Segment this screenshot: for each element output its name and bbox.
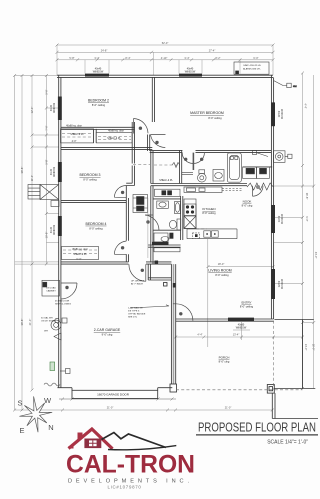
svg-text:8'-2": 8'-2" — [215, 56, 220, 60]
svg-text:52'-0": 52'-0" — [162, 41, 169, 45]
kitchen upper counter strip — [184, 187, 222, 192]
hall right wall upper — [148, 135, 150, 152]
living room dim extension — [207, 239, 209, 347]
svg-text:SIMP. 4200 PLUS: SIMP. 4200 PLUS — [243, 65, 261, 67]
label kitchen — [202, 207, 216, 215]
linen boxes hall — [155, 189, 181, 196]
electrical panel right wall — [274, 151, 286, 163]
svg-text:4'-4": 4'-4" — [197, 333, 202, 337]
water heater — [51, 320, 61, 330]
svg-text:W: W — [44, 396, 52, 405]
svg-text:SELF CLOSING: SELF CLOSING — [55, 304, 71, 306]
svg-text:N: N — [48, 423, 53, 432]
svg-text:8'-0" ceiling: 8'-0" ceiling — [215, 273, 229, 277]
svg-text:LIC#1079870: LIC#1079870 — [107, 485, 141, 490]
svg-text:1-HR WALL W/: 1-HR WALL W/ — [128, 307, 143, 310]
bedroom3 door — [114, 186, 126, 198]
bedroom4 closet shelf — [63, 249, 97, 251]
laundry bottom wall — [148, 245, 181, 247]
svg-text:9'-0": 9'-0" — [305, 216, 309, 221]
DN box below fireplace — [51, 201, 59, 207]
svg-text:WINDOW: WINDOW — [280, 279, 282, 290]
svg-text:WINDOW: WINDOW — [236, 327, 247, 330]
svg-text:40x68 sq. door: 40x68 sq. door — [108, 129, 124, 132]
svg-text:24'-8": 24'-8" — [101, 48, 108, 52]
svg-text:CAL-TRON: CAL-TRON — [66, 451, 195, 479]
window top wall bedroom2 — [85, 74, 109, 77]
dim tick left bed4 window — [46, 241, 58, 243]
bottom wall living/entry — [176, 319, 274, 321]
master closet right wall — [180, 150, 182, 183]
svg-text:40x40: 40x40 — [277, 111, 279, 118]
svg-text:16070 GARAGE DOOR: 16070 GARAGE DOOR — [97, 392, 130, 396]
porch dimension line — [175, 336, 303, 338]
svg-text:UP 15R RISE: UP 15R RISE — [131, 281, 145, 283]
svg-text:11'-4": 11'-4" — [30, 175, 34, 181]
dim tick bedroom3 top — [32, 146, 59, 148]
bedroom3/4 right wall — [126, 186, 128, 262]
fireplace hatch box left wall — [28, 185, 40, 200]
garage wall outlet — [173, 283, 176, 288]
wavy planter line — [247, 183, 273, 190]
svg-text:8'-0" ceiling: 8'-0" ceiling — [202, 211, 216, 215]
FAU closet — [133, 195, 148, 213]
svg-text:2-CAR GARAGE: 2-CAR GARAGE — [94, 328, 121, 332]
svg-text:3'-4": 3'-4" — [94, 56, 99, 60]
range burner dots — [186, 205, 194, 213]
svg-text:18'-0": 18'-0" — [218, 262, 225, 266]
door dot hall bath — [146, 220, 149, 223]
svg-text:MASTER BEDROOM: MASTER BEDROOM — [190, 111, 224, 115]
svg-text:WH: WH — [44, 331, 48, 333]
bedroom2/master wall — [152, 77, 154, 122]
right exterior wall — [271, 75, 273, 319]
window extension ticks from top dim to wall — [57, 45, 273, 75]
window left wall bedroom3 — [58, 162, 62, 182]
left dim top connector — [15, 75, 57, 77]
left dimension line 2 — [21, 76, 23, 411]
bedroom4 closet pole — [63, 253, 97, 255]
far right dimension line — [313, 75, 315, 389]
svg-text:10'-8": 10'-8" — [45, 232, 49, 239]
master bath sink — [213, 170, 224, 182]
svg-text:40x50: 40x50 — [277, 216, 279, 223]
svg-text:NOOK: NOOK — [243, 200, 252, 204]
closet pole dashed bedroom2 right — [98, 139, 131, 141]
hallbath/laundry left wall — [151, 186, 153, 263]
door dot bedroom4 — [121, 246, 124, 249]
vestibule shelf — [154, 248, 180, 252]
svg-text:WINDOW: WINDOW — [280, 214, 282, 225]
kitchen dashed upper cab — [196, 228, 207, 230]
hall bath door — [145, 215, 159, 231]
rotated window labels left wall — [51, 102, 282, 290]
gas meter top right — [274, 81, 287, 86]
bedroom2 door — [134, 119, 149, 134]
top dimension line 2 — [57, 51, 273, 53]
svg-text:SHELF & PL: SHELF & PL — [70, 133, 84, 136]
svg-text:PORCH: PORCH — [219, 356, 230, 360]
attic access hall — [133, 164, 150, 166]
svg-text:BEDROOM 4: BEDROOM 4 — [85, 222, 106, 226]
svg-text:SCALE 1/4"= 1'-0": SCALE 1/4"= 1'-0" — [267, 440, 308, 446]
fireplace hatch lines — [28, 188, 40, 195]
master vanity double — [243, 167, 257, 179]
door dot master bath right — [200, 158, 203, 161]
bedroom2 closet top wall — [61, 127, 135, 129]
svg-text:8'-0" clng: 8'-0" clng — [242, 203, 253, 207]
fireplace X box — [40, 185, 59, 200]
master vanity wall — [243, 166, 272, 168]
bedroom4 door — [114, 241, 126, 254]
left dimension line 1 — [14, 76, 16, 411]
logo house window — [89, 440, 97, 446]
master bath top wall — [150, 150, 272, 152]
svg-text:40x68 sq. door: 40x68 sq. door — [66, 124, 82, 127]
master bath toilet — [199, 170, 205, 174]
svg-text:BEDROOM 3: BEDROOM 3 — [79, 173, 100, 177]
label living room — [208, 269, 231, 278]
svg-text:8'-4": 8'-4" — [125, 56, 130, 60]
logo house body — [84, 439, 101, 449]
dim tick left bed4 top — [46, 213, 59, 215]
front door label underline — [233, 329, 250, 331]
left dimension line 4 — [45, 76, 47, 265]
svg-text:ALARM 2436 DTL: ALARM 2436 DTL — [243, 68, 262, 71]
svg-text:GM: GM — [293, 86, 297, 88]
top exterior wall — [57, 75, 273, 77]
dishwasher dashed — [193, 233, 200, 239]
master bath bottom wall — [151, 184, 247, 186]
kitchen counter left column — [184, 199, 196, 229]
svg-text:16'-0": 16'-0" — [312, 344, 316, 351]
svg-text:WINDOW: WINDOW — [93, 71, 104, 74]
window right wall living — [271, 269, 275, 299]
svg-text:AT 7" EACH: AT 7" EACH — [131, 283, 143, 286]
svg-text:44'-0": 44'-0" — [314, 252, 318, 259]
svg-text:KITCHEN: KITCHEN — [202, 207, 215, 211]
label bedroom2 — [88, 99, 109, 108]
svg-text:6'-0": 6'-0" — [76, 257, 81, 261]
svg-text:5'-8": 5'-8" — [45, 159, 49, 164]
kitchen/bath divider wall — [181, 196, 183, 240]
top dimension line 1 — [57, 44, 273, 46]
tub faucet squares — [230, 156, 233, 159]
hall bath vanity — [157, 201, 169, 208]
svg-text:27'-4": 27'-4" — [209, 48, 216, 52]
label master bedroom — [190, 111, 224, 120]
entry steps — [272, 393, 318, 418]
wavy electrical bottom left — [44, 383, 60, 386]
svg-text:4'-10": 4'-10" — [161, 56, 168, 60]
hall to garage door — [129, 264, 146, 281]
dim tick right 3b — [274, 242, 303, 244]
svg-text:50 GAL WH: 50 GAL WH — [41, 317, 53, 320]
svg-text:13'-4": 13'-4" — [233, 333, 240, 337]
bedroom4 closet box — [62, 247, 99, 260]
bedroom3 bottom wall — [61, 200, 126, 202]
door dot master bath left — [184, 158, 187, 161]
bedroom2 closet box right — [96, 132, 132, 143]
dim tick bedroom2 bottom — [32, 134, 59, 136]
svg-text:21'-0": 21'-0" — [225, 406, 232, 410]
svg-text:40x40: 40x40 — [51, 226, 53, 233]
svg-text:8'-0" ceiling: 8'-0" ceiling — [208, 116, 222, 120]
svg-text:E: E — [19, 426, 24, 435]
svg-text:5'-8": 5'-8" — [69, 56, 74, 60]
laundry washer/dryer — [154, 233, 168, 242]
svg-text:40x80: 40x80 — [277, 281, 279, 288]
left exterior wall — [59, 75, 61, 388]
gas meter symbols — [62, 318, 67, 323]
range burners — [184, 204, 196, 216]
svg-text:S: S — [17, 399, 22, 408]
dim tick right 2 — [274, 185, 314, 187]
svg-text:40x40: 40x40 — [51, 104, 53, 111]
door dot hall to garage — [141, 269, 144, 272]
closet divider — [94, 129, 97, 143]
right dimension line — [302, 73, 304, 389]
logo red roof — [69, 429, 113, 449]
hall bath shower — [175, 202, 181, 214]
svg-text:ON 18" STAND: ON 18" STAND — [41, 320, 56, 323]
svg-text:12'-0": 12'-0" — [30, 107, 34, 114]
front door dim extension — [241, 322, 243, 340]
svg-text:9'-0" clng: 9'-0" clng — [102, 333, 113, 337]
laundry door dark blob — [169, 233, 173, 239]
kitchen bottom counter — [187, 229, 237, 239]
door dot master bedroom — [155, 141, 158, 144]
svg-text:40x40: 40x40 — [51, 168, 53, 175]
note box top right — [234, 62, 269, 74]
label entry — [240, 301, 254, 309]
svg-text:6'-0": 6'-0" — [253, 56, 258, 60]
svg-text:36'-8": 36'-8" — [20, 319, 24, 326]
master bedroom door — [151, 135, 166, 148]
landing outlet blob — [155, 261, 159, 264]
garage door jambs — [57, 388, 172, 391]
dim tick right 4 — [274, 283, 303, 285]
window right wall nook upper — [271, 205, 275, 233]
window left wall bedroom2 — [58, 97, 62, 121]
garage right wall — [171, 264, 175, 384]
svg-text:LIVING ROOM: LIVING ROOM — [208, 269, 231, 273]
garage to living door — [173, 304, 193, 321]
label bedroom4 — [85, 222, 106, 231]
svg-text:WINDOW: WINDOW — [280, 109, 282, 120]
svg-text:8'-0" ceiling: 8'-0" ceiling — [240, 304, 254, 308]
garage side door — [61, 283, 77, 299]
svg-text:8'-0" ceiling: 8'-0" ceiling — [89, 226, 103, 230]
hall bath bottom wall — [153, 229, 181, 231]
svg-text:45 MIN DOOR: 45 MIN DOOR — [55, 301, 70, 303]
fridge box — [184, 216, 196, 229]
svg-text:PROPOSED FLOOR PLAN: PROPOSED FLOOR PLAN — [198, 421, 316, 435]
svg-text:8'-0" ceiling: 8'-0" ceiling — [92, 103, 106, 107]
bath dim extension — [147, 198, 149, 258]
hall bath top wall — [153, 198, 181, 200]
hall bath toilet — [177, 219, 181, 230]
closet pole dashed bedroom2 left — [62, 136, 93, 138]
window top wall master — [179, 74, 202, 77]
closet row bottom / bedroom3 top wall — [61, 147, 152, 149]
front door band — [228, 318, 254, 322]
master tub — [227, 153, 241, 182]
left dimension line 3 — [31, 76, 33, 391]
side door cabinet box — [42, 280, 60, 296]
bedroom234 bottom wall / hall top — [61, 262, 171, 264]
logo swoosh — [108, 445, 176, 451]
green box garage — [50, 362, 55, 371]
1hr wall leader — [130, 305, 169, 308]
title underline — [196, 434, 318, 436]
svg-text:BEDROOM 2: BEDROOM 2 — [88, 99, 109, 103]
master bath double doors — [182, 153, 204, 170]
door dot garage to living — [179, 312, 182, 315]
svg-text:CABINET: CABINET — [46, 290, 56, 293]
window right wall master — [271, 102, 275, 126]
garage stair landing walls — [148, 264, 171, 280]
logo black roofline — [102, 433, 167, 448]
svg-text:5'-0": 5'-0" — [45, 89, 49, 94]
toilet partition — [182, 172, 193, 174]
logo eave tick left — [69, 446, 74, 448]
svg-text:ENTRY: ENTRY — [241, 301, 251, 305]
master closet pole — [154, 164, 179, 166]
svg-text:21'-0": 21'-0" — [107, 406, 114, 410]
svg-text:GYP BD EA SIDE: GYP BD EA SIDE — [128, 313, 146, 316]
dim tick left bed4 bot — [15, 261, 59, 263]
label 2-car garage — [94, 328, 121, 337]
logo chimney — [78, 433, 83, 440]
label porch — [219, 356, 230, 364]
top dimension line 3 — [57, 59, 273, 61]
porch post — [267, 385, 274, 394]
kitchen sinks — [204, 231, 211, 237]
dim tick right 5 — [303, 322, 314, 324]
svg-text:45x81 sq. door: 45x81 sq. door — [72, 248, 88, 251]
svg-text:5/8 TYPE X: 5/8 TYPE X — [128, 311, 140, 313]
panel leader — [256, 153, 268, 157]
svg-text:21'-0": 21'-0" — [28, 319, 32, 326]
svg-text:36'-8": 36'-8" — [20, 167, 24, 174]
garage wall end cap — [170, 384, 177, 392]
compass star — [19, 396, 52, 432]
laundry dark band — [152, 242, 169, 245]
door dot bedroom2 — [139, 127, 142, 130]
bedroom2 closet box left — [61, 129, 94, 143]
closet shelf dashed bedroom2 right — [98, 136, 131, 138]
label nook — [242, 200, 253, 208]
svg-text:36'-8": 36'-8" — [305, 193, 309, 200]
svg-text:4'-0": 4'-0" — [72, 140, 77, 143]
living room dimension line — [208, 266, 273, 268]
door dot bedroom3 — [121, 191, 124, 194]
svg-text:8'-0" clng: 8'-0" clng — [219, 359, 230, 363]
svg-text:3'-4": 3'-4" — [184, 56, 189, 60]
panel side box — [288, 154, 292, 158]
garage gas outlet box — [164, 283, 168, 287]
label bedroom3 — [79, 173, 100, 182]
window left wall bedroom4 — [58, 216, 62, 236]
door dot garage side door — [65, 286, 68, 289]
master closet pole zigzag — [172, 163, 180, 168]
dim tick left mid1 — [46, 107, 59, 109]
hall bath sink oval — [159, 202, 166, 207]
master closet left wall — [151, 151, 153, 184]
hall left wall upper — [132, 122, 134, 164]
garage door dim line — [59, 398, 176, 400]
dimension tick slashes — [13, 44, 315, 412]
svg-text:14'-0": 14'-0" — [304, 344, 308, 351]
garage door panel — [72, 390, 158, 398]
svg-text:WINDOW: WINDOW — [54, 102, 56, 113]
dim tick right 3 — [274, 216, 303, 218]
porch right edge — [274, 320, 315, 389]
hall left wall lower — [126, 166, 134, 186]
svg-text:7'-0": 7'-0" — [45, 125, 49, 130]
bottom dimension line — [15, 409, 273, 411]
svg-text:8'-0" ceiling: 8'-0" ceiling — [83, 178, 97, 182]
svg-text:SHELF & PL: SHELF & PL — [107, 137, 121, 140]
linen dark squares — [162, 190, 172, 195]
svg-text:WINDOW: WINDOW — [54, 166, 56, 177]
svg-text:SHELF & PL: SHELF & PL — [73, 253, 87, 256]
outlet box lower — [66, 369, 71, 374]
closet shelf dashed bedroom2 left — [62, 133, 93, 135]
svg-text:SHELF & PL: SHELF & PL — [159, 179, 173, 182]
svg-text:WINDOW: WINDOW — [185, 71, 196, 74]
porch bottom dashed — [176, 389, 303, 391]
nook to hall door — [253, 186, 264, 197]
porch right dashed (entry line) — [273, 321, 275, 390]
svg-text:DN LOAD: DN LOAD — [46, 287, 56, 290]
svg-text:WINDOW: WINDOW — [54, 224, 56, 235]
floor drain triangle — [54, 333, 61, 340]
svg-text:4'-4": 4'-4" — [304, 103, 308, 108]
svg-text:SEE DTL: SEE DTL — [128, 317, 138, 319]
